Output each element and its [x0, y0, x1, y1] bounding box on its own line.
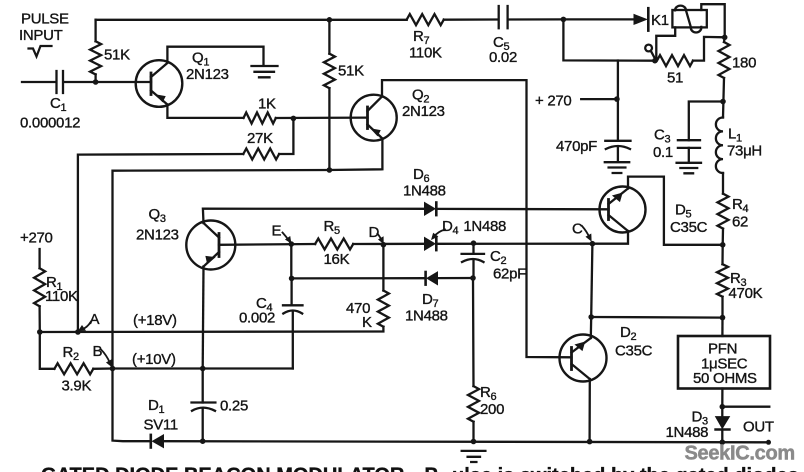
ground (Q1 collector): [252, 66, 278, 77]
wire D node down to 470K: [382, 245, 384, 291]
ground (R6): [462, 451, 486, 462]
node D2 emitter bottom: [587, 439, 593, 445]
wire D5 emitter down-left to C node: [592, 231, 628, 244]
wire Q2 collector up and long right-down rail: [382, 80, 572, 357]
node R1 bottom: [37, 329, 43, 335]
diode D6: [425, 203, 436, 216]
svg-text:A: A: [90, 311, 100, 328]
svg-text:Q3: Q3: [149, 206, 166, 225]
wire node to R3 and R3 to PFN node: [721, 245, 724, 318]
node C arrow: [582, 226, 590, 238]
svg-text:1N488: 1N488: [405, 308, 448, 325]
wire D6 row diode to D5 base: [438, 208, 609, 211]
wire 180 stubs / rail to L1: [723, 37, 725, 117]
svg-text:D5: D5: [675, 202, 692, 221]
wire from junction left then down to B node: [113, 170, 330, 369]
svg-text:R2: R2: [63, 344, 80, 363]
diode D7: [427, 272, 438, 285]
relay K1 contact bar: [647, 8, 650, 30]
svg-text:51K: 51K: [104, 47, 130, 64]
svg-text:K: K: [362, 314, 372, 331]
wire R1 node down to R2: [40, 332, 55, 369]
wire D4 row to D5 emitter corner: [438, 243, 593, 245]
wire input line left: [22, 81, 151, 83]
wire C node down to D2 collector node: [591, 244, 592, 317]
wire OUT lead: [722, 406, 769, 408]
wire C2 stubs: [472, 243, 474, 278]
node +270 junction: [614, 96, 620, 102]
svg-text:D41N488: D41N488: [442, 218, 506, 237]
wire coil left lead: [656, 27, 675, 60]
svg-text:R5: R5: [324, 218, 341, 237]
svg-text:1N488: 1N488: [666, 424, 709, 441]
resistor 51K second: [324, 54, 335, 88]
svg-text:C: C: [572, 221, 583, 238]
wire Q1 collector to ground: [167, 47, 263, 65]
wire bottom rail: [164, 441, 769, 442]
capacitor C5: [499, 6, 508, 28]
wire 0.25 cap vertical: [202, 369, 204, 442]
node rail end: [766, 440, 771, 445]
svg-text:+ 270: + 270: [535, 93, 571, 110]
capacitor 0.25: [192, 403, 216, 411]
svg-text:C35C: C35C: [615, 343, 653, 360]
node 1K/27K junction: [291, 116, 297, 122]
capacitor C2: [462, 254, 484, 262]
svg-text:D2: D2: [620, 324, 637, 343]
node D5 collector junction: [720, 242, 726, 248]
wire Q3 collector up to D6 row: [203, 209, 425, 223]
svg-text:GATED DIODE BEACON MODULATOR—P: GATED DIODE BEACON MODULATOR—P: [41, 465, 438, 472]
svg-text:+270: +270: [20, 230, 53, 247]
wire 27K right end up to junction: [279, 118, 293, 154]
svg-text:D1: D1: [148, 397, 165, 416]
svg-text:0.1: 0.1: [653, 144, 673, 161]
node E: [289, 241, 295, 247]
wire top rail: [96, 18, 564, 21]
svg-text:1N488: 1N488: [403, 183, 446, 200]
node D arrow: [378, 234, 383, 241]
resistor 180: [719, 42, 730, 78]
node 51-left junction: [652, 58, 658, 64]
svg-text:SeekIC.com: SeekIC.com: [685, 443, 795, 465]
svg-text:0.02: 0.02: [489, 49, 517, 66]
resistor 51: [657, 55, 693, 66]
wire C3 bottom stub: [688, 148, 690, 162]
svg-text:51K: 51K: [338, 63, 364, 80]
svg-text:D: D: [369, 224, 380, 241]
svg-text:PULSE: PULSE: [21, 11, 69, 28]
capacitor C1: [57, 71, 64, 93]
svg-text:(+18V): (+18V): [133, 312, 177, 329]
wire D2 collector node to PFN node: [591, 316, 722, 319]
svg-text:0.000012: 0.000012: [20, 115, 80, 132]
wire K1 arrow line: [563, 18, 639, 20]
wire coil right lead over top: [701, 4, 724, 37]
resistor R4: [718, 194, 729, 229]
wire +270 lead: [581, 98, 617, 100]
svg-text:2N123: 2N123: [402, 103, 445, 120]
wire +10V row: [113, 367, 293, 369]
wire PFN bottom to OUT node: [721, 389, 723, 407]
wire node to PFN box: [721, 318, 723, 336]
wire contact to 51 junction: [651, 51, 655, 59]
diode D4: [425, 238, 436, 251]
svg-text:110K: 110K: [409, 45, 442, 62]
wire R4 to node: [722, 229, 725, 245]
wire Q3 base row (E row) to D4: [219, 244, 425, 245]
wire D5 collector path to rail: [628, 177, 723, 245]
transistor Q1: [136, 60, 183, 107]
D4 label arrow: [434, 230, 446, 238]
resistor R3: [717, 264, 728, 297]
svg-text:180: 180: [732, 55, 756, 72]
node 180 top junction: [722, 35, 728, 41]
wire R6 bottom stub: [472, 422, 474, 442]
svg-text:ulse is switched by the gated: ulse is switched by the gated diodes: [452, 465, 799, 472]
node C2 top junction: [471, 240, 477, 246]
resistor R1: [34, 268, 45, 306]
node C5/K1 junction: [561, 17, 567, 23]
transistor D2: [560, 335, 607, 382]
inductor L1: [716, 117, 723, 173]
node OUT junction: [720, 404, 726, 410]
pulse input symbol: [29, 46, 52, 57]
svg-text:INPUT: INPUT: [19, 27, 63, 44]
resistor 27K: [243, 149, 279, 160]
node A: [75, 329, 81, 335]
node A arrow: [82, 322, 92, 330]
svg-text:C2: C2: [490, 248, 507, 267]
resistor R6: [468, 386, 479, 422]
svg-text:73μH: 73μH: [727, 143, 762, 160]
svg-text:R4: R4: [732, 196, 749, 215]
transistor Q3: [186, 221, 235, 270]
svg-text:51: 51: [667, 70, 683, 87]
node input junction: [93, 79, 99, 85]
diode D1: [153, 435, 164, 448]
node E arrow: [283, 233, 290, 241]
node C2 bottom / D7 junction: [470, 275, 476, 281]
wire D2 emitter down to bottom rail: [588, 379, 591, 441]
node top rail junction at 51K(2): [327, 17, 333, 23]
svg-text:(+10V): (+10V): [132, 351, 176, 368]
svg-text:200: 200: [480, 401, 504, 418]
svg-text:2N123: 2N123: [186, 66, 229, 83]
node D: [381, 242, 387, 248]
wire E node down to D7 row junction: [290, 244, 292, 278]
node B arrow: [101, 350, 110, 364]
wire 51K vertical stubs: [94, 20, 96, 82]
svg-text:C1: C1: [50, 95, 67, 114]
resistor 470K: [378, 291, 389, 327]
resistor R2: [54, 363, 93, 374]
node 0.25 bottom: [200, 438, 206, 444]
wire R2 to B node: [93, 367, 112, 370]
node C4 top junction: [289, 276, 295, 282]
svg-text:62: 62: [732, 214, 748, 231]
node D2 collector junction: [588, 314, 594, 320]
capacitor 470pF: [605, 141, 630, 149]
svg-text:470K: 470K: [729, 285, 763, 302]
svg-text:16K: 16K: [324, 251, 350, 268]
resistor 1K: [244, 113, 276, 124]
svg-text:110K: 110K: [45, 288, 78, 305]
svg-text:470pF: 470pF: [556, 138, 597, 155]
wire C4 vertical: [292, 278, 293, 368]
svg-text:50 OHMS: 50 OHMS: [693, 370, 757, 387]
transistor Q2: [351, 95, 397, 141]
svg-text:C3: C3: [654, 127, 671, 146]
wire 51 right end up to 180 top dot: [693, 37, 725, 61]
node C (D5 emitter junction): [590, 241, 596, 247]
svg-text:B: B: [93, 343, 103, 360]
node B: [110, 366, 116, 372]
svg-text:62pF: 62pF: [493, 266, 526, 283]
wire from C5 dot down and right to 51 resistor: [563, 19, 655, 60]
wire 51K(2) stubs: [328, 20, 330, 170]
svg-text:0.002: 0.002: [239, 310, 275, 327]
wire Q1 emitter row to Q2 base: [167, 105, 367, 119]
capacitor C4: [283, 305, 303, 313]
relay K1 coil sine: [675, 6, 701, 33]
wire L1 to R4: [722, 173, 724, 194]
wire D7 row: [292, 277, 473, 280]
wire 470pF vertical / +270 branch: [617, 61, 619, 161]
resistor R5: [315, 239, 353, 250]
wire Q2 emitter to 51K junction: [329, 139, 382, 171]
svg-text:K1: K1: [651, 12, 669, 29]
wire D2 collector up: [590, 317, 593, 338]
PFN box: [678, 336, 770, 389]
svg-text:E: E: [272, 223, 282, 240]
svg-text:0.25: 0.25: [220, 398, 248, 415]
ground (C3): [677, 163, 701, 174]
wire C3 top lead to rail: [689, 102, 723, 141]
transistor D5: [600, 187, 646, 233]
node D3 bottom: [720, 439, 726, 445]
node 0.25 top junction: [200, 366, 206, 372]
node PFN top junction: [720, 315, 726, 321]
svg-text:1K: 1K: [258, 96, 276, 113]
wire +270 stub to R1 and R1 to +18V row: [38, 249, 41, 332]
wire Q3 emitter down through rows: [202, 267, 205, 369]
svg-text:OUT: OUT: [743, 419, 774, 436]
resistor 51K first: [90, 41, 101, 74]
svg-text:27K: 27K: [247, 130, 273, 147]
relay K1 coil box: [672, 10, 706, 27]
ground (470pF): [605, 162, 629, 173]
svg-text:C35C: C35C: [670, 219, 708, 236]
capacitor C3: [678, 140, 700, 148]
svg-text:2N123: 2N123: [136, 227, 179, 244]
diode D3: [721, 407, 723, 417]
relay K1 contact circle: [645, 45, 652, 52]
svg-text:SV11: SV11: [144, 417, 178, 434]
wire 27K left to A-node vertical: [78, 154, 243, 332]
wire +18V row: [40, 327, 384, 332]
node C3 branch junction: [720, 99, 726, 105]
svg-text:3.9K: 3.9K: [62, 378, 92, 395]
node R6 bottom: [471, 439, 477, 445]
resistor R7: [407, 14, 444, 25]
wire D7/C2 junction down to R6: [472, 278, 475, 386]
wire B node down to bottom rail: [113, 369, 151, 442]
node Q2 emitter/51K junction: [327, 167, 333, 173]
